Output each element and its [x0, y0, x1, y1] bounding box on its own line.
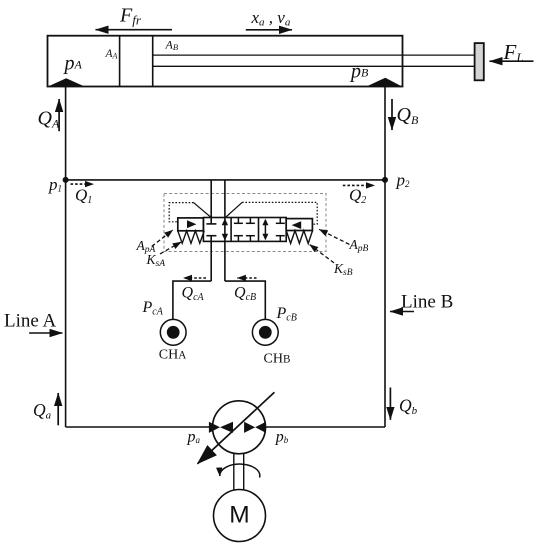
rotation arrow — [220, 464, 260, 477]
svg-text:PcA: PcA — [142, 299, 164, 318]
pilot line right dotted — [242, 202, 317, 224]
displacement arrow xa,va — [246, 29, 292, 31]
wire line B vertical — [384, 87, 386, 428]
pilot actuator left triangle — [187, 220, 196, 228]
pointer KsB — [310, 245, 334, 263]
svg-text:ApB: ApB — [349, 237, 369, 254]
svg-text:QcA: QcA — [182, 285, 205, 304]
pump flow triangles left — [209, 422, 220, 433]
check valve CHB — [252, 319, 278, 345]
flow arrow QcB — [237, 277, 256, 279]
svg-text:PcB: PcB — [276, 305, 297, 324]
shaft — [233, 454, 235, 490]
friction force arrow Ffr — [96, 29, 173, 31]
wire bottom right — [265, 426, 385, 428]
valve body — [203, 218, 286, 242]
valve dashed enclosure — [164, 194, 326, 252]
svg-text:Q1: Q1 — [75, 186, 92, 207]
piston — [119, 36, 121, 87]
valve pos2 T symbols — [234, 218, 255, 242]
svg-text:p1: p1 — [48, 175, 62, 194]
svg-text:CHA: CHA — [159, 347, 187, 362]
svg-text:QA: QA — [38, 107, 60, 130]
wire QcB path — [225, 281, 265, 319]
wire valve feed right — [224, 180, 226, 281]
pump flow triangles right — [244, 422, 255, 433]
motor circle — [214, 490, 266, 542]
svg-text:M: M — [229, 502, 249, 529]
pump circle — [213, 401, 266, 454]
port B triangle — [367, 78, 402, 87]
svg-text:Qb: Qb — [399, 396, 418, 418]
svg-text:pa: pa — [187, 429, 201, 446]
spring KsA — [178, 231, 204, 244]
piston rod — [153, 54, 475, 56]
wire valve feed left top — [210, 180, 212, 224]
svg-text:xa , va: xa , va — [251, 8, 291, 29]
wire QcA path — [173, 281, 211, 319]
svg-text:pA: pA — [63, 52, 83, 74]
svg-text:Line A: Line A — [4, 311, 57, 332]
pilot line left dotted — [169, 203, 193, 222]
valve pos1 open path arrowheads — [222, 218, 228, 225]
arrow Line B — [390, 311, 414, 313]
svg-text:pB: pB — [349, 61, 369, 83]
wire p1-p2 horizontal — [66, 179, 385, 181]
svg-text:KsA: KsA — [146, 252, 166, 269]
pilot line left diagonal — [194, 203, 212, 218]
flow arrow QcA — [184, 277, 207, 279]
pump variable displacement arrow — [198, 392, 275, 463]
wire valve feed left bottom — [210, 236, 212, 281]
svg-text:p2: p2 — [396, 171, 411, 190]
valve pos1 blocked port T bottom — [206, 235, 216, 237]
cylinder body — [48, 36, 403, 87]
svg-text:QB: QB — [397, 104, 419, 127]
valve pos3 open path double arrow — [264, 221, 266, 239]
flow arrow Qb — [389, 388, 391, 420]
pointer KsA — [160, 242, 181, 254]
flow arrow Q1 — [71, 183, 94, 185]
svg-text:AB: AB — [165, 38, 179, 53]
svg-text:Qa: Qa — [33, 400, 52, 422]
svg-text:Ffr: Ffr — [119, 4, 142, 27]
svg-text:Q2: Q2 — [349, 186, 366, 207]
pilot actuator right triangle — [292, 221, 302, 229]
svg-text:FL: FL — [503, 40, 524, 65]
svg-text:AA: AA — [105, 48, 118, 61]
pilot actuator right box — [286, 219, 312, 231]
node p1 — [63, 177, 69, 183]
check valve CHA — [160, 319, 186, 345]
valve pos1 blocked port T top — [206, 223, 216, 225]
load plate — [475, 43, 484, 80]
pointer ApA — [152, 230, 173, 246]
svg-text:pb: pb — [275, 429, 289, 446]
valve pos3 blocked port T — [276, 218, 285, 242]
flow arrow Qa — [57, 393, 59, 425]
pilot actuator left box — [178, 218, 204, 231]
svg-text:Line B: Line B — [401, 292, 453, 313]
load force arrow FL — [490, 60, 534, 62]
svg-text:QcB: QcB — [234, 285, 256, 304]
spring KsB — [286, 231, 312, 244]
pilot line right diagonal — [225, 202, 242, 217]
port A triangle — [49, 78, 85, 86]
svg-text:CHB: CHB — [264, 352, 291, 367]
flow arrow QA — [58, 99, 60, 131]
flow arrow Q2 — [343, 184, 375, 186]
pointer ApB — [319, 229, 349, 244]
wire bottom left — [66, 426, 213, 428]
svg-text:KsB: KsB — [333, 261, 353, 278]
arrow Line A — [29, 332, 62, 334]
wire line A vertical — [65, 87, 67, 428]
node p2 — [382, 177, 388, 183]
flow arrow QB — [391, 99, 393, 130]
